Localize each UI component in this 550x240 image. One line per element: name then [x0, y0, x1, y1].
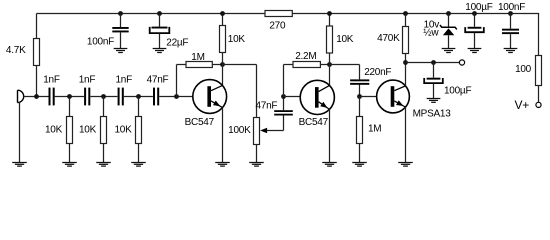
wire — [90, 96, 117, 98]
capacitor 47nF coupling — [256, 101, 293, 116]
capacitor C2 1nF — [79, 75, 96, 106]
resistor 1M feedback — [186, 52, 212, 68]
wire — [405, 14, 407, 27]
wire — [433, 84, 435, 99]
wire — [159, 33, 161, 48]
wire — [405, 54, 407, 63]
wire Q3 emitter — [405, 107, 407, 162]
resistor 4.7K — [6, 39, 40, 66]
node rail 10K — [220, 11, 225, 16]
capacitor C1 1nF — [43, 75, 60, 106]
svg-text:BC547: BC547 — [185, 117, 215, 128]
wire — [448, 14, 450, 28]
wire — [69, 144, 71, 163]
svg-text:10K: 10K — [79, 125, 97, 136]
wire pot bottom — [256, 145, 258, 163]
wire — [222, 14, 224, 26]
node — [136, 94, 141, 99]
capacitor 100nF supply left — [87, 27, 129, 48]
ground 100nF left — [114, 49, 128, 53]
wire collector node to pot — [223, 65, 257, 118]
svg-text:1M: 1M — [368, 124, 381, 135]
resistor 2.2M — [293, 51, 320, 68]
node Q2 collector — [327, 62, 332, 67]
wire Q2 base — [284, 96, 301, 98]
svg-text:220nF: 220nF — [364, 67, 391, 78]
svg-text:1nF: 1nF — [79, 75, 96, 86]
potentiometer 100K — [228, 118, 259, 145]
wire — [448, 35, 450, 48]
capacitor 22uF supply — [150, 27, 189, 49]
svg-text:BC547: BC547 — [299, 117, 329, 128]
wire Q2 collector — [329, 65, 331, 86]
diode zener D1 10v — [423, 20, 457, 39]
node output junction — [403, 60, 408, 65]
ground pot — [249, 163, 264, 167]
wire 1M feedback left leg — [177, 65, 187, 97]
wire — [55, 96, 84, 98]
wire Q2 emitter — [329, 109, 331, 162]
wire Q1 collector — [222, 65, 224, 86]
resistor R3 10K — [79, 117, 107, 144]
node rail 10K Q2 — [327, 11, 332, 16]
capacitor 100uF output — [424, 78, 471, 97]
node Q2 base — [281, 94, 286, 99]
node Q1 collector — [220, 62, 225, 67]
input jack J1 — [18, 90, 24, 102]
ground zener — [442, 49, 456, 53]
resistor R2 10K — [45, 117, 73, 144]
wire jack to C1 — [24, 96, 49, 98]
svg-text:10K: 10K — [336, 34, 354, 45]
transistor Q3 MPSA13 — [377, 80, 452, 119]
node — [101, 94, 106, 99]
svg-text:100nF: 100nF — [498, 2, 525, 13]
svg-text:4.7K: 4.7K — [6, 45, 26, 56]
wire — [320, 64, 329, 66]
resistor 10K collector Q2 — [327, 26, 354, 53]
wire — [138, 144, 140, 163]
wire output — [406, 62, 460, 64]
svg-text:470K: 470K — [377, 33, 400, 44]
terminal V+ — [514, 98, 541, 112]
ground Q2 emitter — [322, 163, 337, 167]
wire — [69, 97, 71, 117]
wire — [138, 97, 140, 117]
wire — [120, 14, 122, 28]
svg-text:100µF: 100µF — [465, 2, 492, 13]
wire top supply rail — [37, 13, 540, 15]
transistor Q2 BC547 — [299, 80, 335, 128]
node rail 100nF left — [118, 11, 123, 16]
svg-text:270: 270 — [269, 21, 286, 32]
wire — [283, 115, 285, 130]
wire — [283, 97, 285, 111]
node rail zener — [446, 11, 451, 16]
wire — [103, 144, 105, 163]
wire — [212, 64, 222, 66]
node rail 100nF — [508, 11, 513, 16]
transistor Q1 BC547 — [185, 80, 227, 129]
node rail 100uF — [472, 11, 477, 16]
wire 4.7K top stem — [36, 14, 38, 39]
svg-text:10K: 10K — [114, 125, 132, 136]
node Q1 base feed — [174, 94, 179, 99]
svg-text:1M: 1M — [191, 52, 204, 63]
svg-text:1nF: 1nF — [115, 75, 132, 86]
svg-text:10K: 10K — [45, 125, 63, 136]
svg-text:100: 100 — [515, 64, 532, 75]
wire — [329, 14, 331, 27]
ground input — [12, 163, 27, 167]
capacitor 100nF supply — [498, 2, 525, 34]
capacitor C4 47nF — [147, 75, 169, 106]
wire — [159, 96, 192, 98]
node rail 470K — [403, 11, 408, 16]
node 4.7K junction — [34, 94, 39, 99]
svg-text:2.2M: 2.2M — [295, 51, 316, 62]
wire — [103, 97, 105, 117]
wire Q3 base — [360, 96, 377, 98]
svg-text:100nF: 100nF — [87, 37, 114, 48]
wire — [359, 85, 361, 97]
terminal output — [459, 60, 464, 65]
wire — [159, 14, 161, 27]
resistor 270 rail — [265, 11, 292, 32]
wire — [510, 14, 512, 29]
wire — [329, 53, 331, 65]
capacitor C3 1nF — [115, 75, 132, 106]
ground R4 — [131, 163, 146, 167]
ground R3 — [96, 163, 111, 167]
wire Q3 collector — [405, 63, 407, 86]
ground output cap — [427, 99, 441, 103]
svg-text:½w: ½w — [423, 28, 439, 39]
node Q3 base — [357, 94, 362, 99]
ground 1M — [352, 163, 367, 167]
node — [67, 94, 72, 99]
ground R2 — [62, 163, 77, 167]
wire — [433, 63, 435, 78]
resistor 1M base Q3 — [357, 117, 382, 144]
svg-text:47nF: 47nF — [147, 75, 169, 86]
ground 100uF supply — [468, 49, 482, 53]
svg-text:V+: V+ — [514, 98, 529, 112]
resistor 100 — [515, 56, 541, 86]
wire pot wiper — [260, 128, 283, 134]
resistor 470K — [377, 27, 408, 54]
wire — [538, 86, 540, 103]
svg-text:1nF: 1nF — [43, 75, 60, 86]
svg-text:100µF: 100µF — [444, 86, 471, 97]
wire — [359, 97, 361, 117]
wire 2.2M left leg — [284, 65, 294, 97]
resistor 10K collector Q1 — [220, 26, 246, 53]
wire — [359, 144, 361, 163]
wire right rail drop — [538, 14, 540, 56]
ground 100nF supply — [504, 49, 518, 53]
node 100uF out — [431, 60, 436, 65]
wire — [474, 14, 476, 27]
wire — [510, 34, 512, 48]
svg-text:22µF: 22µF — [166, 38, 188, 49]
svg-text:10K: 10K — [228, 34, 246, 45]
capacitor 220nF — [350, 67, 391, 85]
wire — [222, 53, 224, 65]
ground 22uF — [153, 49, 167, 53]
svg-text:47nF: 47nF — [256, 101, 278, 112]
svg-text:100K: 100K — [228, 125, 251, 136]
wire — [124, 96, 153, 98]
ground Q3 emitter — [398, 163, 413, 167]
wire — [120, 33, 122, 49]
resistor R4 10K — [114, 117, 141, 144]
wire Q1 emitter — [222, 108, 224, 163]
capacitor 100uF supply — [465, 2, 493, 32]
wire to 220nF — [330, 65, 360, 80]
node rail 22uF — [157, 11, 162, 16]
svg-text:MPSA13: MPSA13 — [413, 109, 452, 120]
wire jack down — [19, 102, 21, 162]
ground Q1 emitter — [215, 163, 230, 167]
wire 4.7K bottom stem — [36, 66, 38, 97]
wire — [474, 33, 476, 48]
